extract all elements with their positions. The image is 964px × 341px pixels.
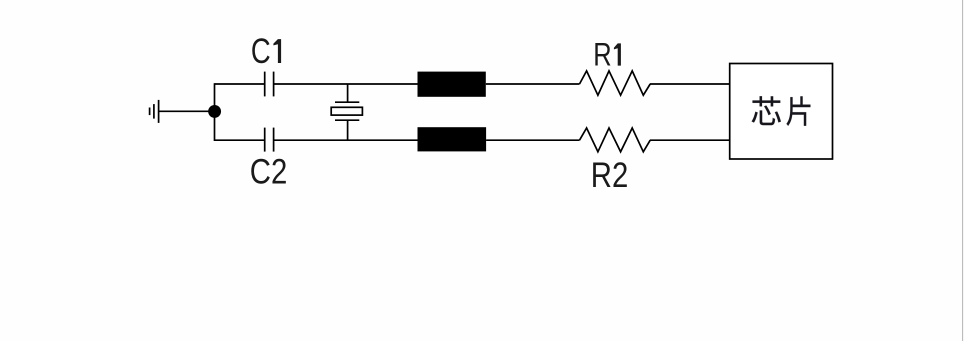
capacitor C2 (265, 128, 274, 152)
resistor R1 (580, 71, 651, 95)
svg-text:R: R (593, 36, 611, 73)
resistor R2 (580, 128, 651, 152)
capacitor C1 (265, 72, 274, 97)
chip U1 box (730, 64, 833, 160)
wire C2 to ferrite bead bottom (274, 139, 418, 141)
node junction (208, 105, 221, 118)
wire bottom rail node to C2 (215, 139, 265, 141)
ferrite bead FB1 (top) (418, 72, 486, 97)
wire vertical node rail (214, 83, 216, 141)
wire C1 to ferrite bead top (274, 83, 418, 85)
ground (150, 100, 159, 123)
ferrite bead FB2 (bottom) (418, 127, 487, 151)
wire bead to R2 (486, 139, 579, 141)
wire R1 to chip (650, 83, 730, 85)
label chip 芯片 (752, 96, 811, 126)
window edge line (right) (962, 0, 964, 341)
wire R2 to chip (650, 139, 730, 141)
wire ground to node (159, 110, 215, 112)
wire top rail node to C1 (215, 83, 265, 85)
wire bead to R1 (486, 83, 580, 85)
crystal (331, 84, 362, 140)
svg-text:C2: C2 (250, 152, 287, 192)
svg-text:R2: R2 (591, 156, 629, 195)
svg-text:C: C (251, 31, 271, 71)
